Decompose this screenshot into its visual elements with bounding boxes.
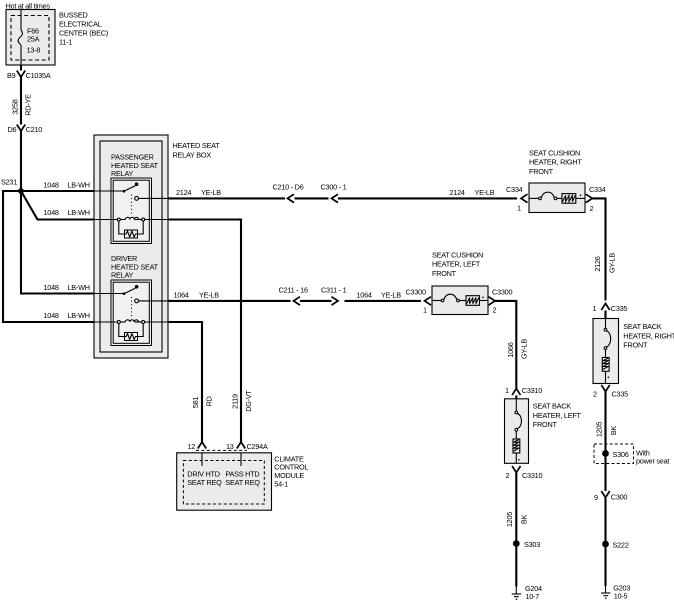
svg-text:RD-YE: RD-YE (24, 94, 33, 116)
wire 2126 GY-LB (592, 198, 616, 300)
svg-text:C3300: C3300 (406, 288, 426, 297)
svg-text:C294A: C294A (247, 442, 268, 451)
splice S231 (1, 178, 24, 194)
svg-text:HEATER, RIGHT: HEATER, RIGHT (623, 331, 674, 340)
svg-text:1205: 1205 (595, 422, 604, 437)
svg-text:S303: S303 (524, 540, 540, 549)
inline connector C300-1 (321, 183, 347, 203)
ground G204 (512, 584, 542, 600)
svg-text:C300 - 1: C300 - 1 (321, 183, 347, 192)
svg-text:C3300: C3300 (492, 288, 512, 297)
svg-text:GY-LB: GY-LB (520, 339, 529, 359)
svg-text:1: 1 (593, 304, 597, 313)
svg-text:581: 581 (191, 397, 200, 409)
svg-text:C210: C210 (26, 125, 43, 134)
connector C335 pin 1 (593, 304, 628, 319)
connector C334 pin 2 (586, 185, 606, 213)
passenger heated seat relay (94, 152, 168, 243)
svg-text:S306: S306 (613, 450, 629, 459)
wire 1205 BK right column (595, 392, 619, 587)
passenger relay coil (94, 219, 117, 221)
wire 1205 BK left column (505, 473, 529, 587)
svg-text:D6: D6 (8, 125, 17, 134)
inline connector C210-D6 (273, 183, 304, 203)
svg-text:2124: 2124 (176, 188, 191, 197)
svg-text:C311 - 1: C311 - 1 (321, 285, 347, 294)
svg-text:S231: S231 (1, 178, 17, 187)
svg-text:C334: C334 (506, 185, 523, 194)
svg-text:C210 - D6: C210 - D6 (273, 183, 304, 192)
wire from BEC (20, 65, 22, 71)
svg-text:1: 1 (423, 306, 427, 315)
svg-text:HEATED SEAT: HEATED SEAT (173, 141, 221, 150)
svg-text:LB-WH: LB-WH (68, 283, 90, 292)
connector C3300 pin 1 (406, 288, 432, 315)
svg-text:10-5: 10-5 (614, 592, 628, 600)
svg-text:SEAT CUSHION: SEAT CUSHION (529, 148, 580, 157)
driver relay coil (94, 321, 117, 323)
BEC label (59, 11, 108, 47)
svg-text:1048: 1048 (44, 208, 59, 217)
seat cushion heater left front (432, 250, 488, 314)
svg-text:C3310: C3310 (522, 386, 542, 395)
svg-text:LB-WH: LB-WH (68, 311, 90, 320)
wire 1048 LB-WH to driver relay switch (21, 191, 94, 294)
wire 2119 DG-VT passenger coil to module (168, 220, 253, 443)
wire 2124 YE-LB passenger feed (168, 188, 517, 199)
svg-text:LB-WH: LB-WH (68, 208, 90, 217)
wire 3258 RD-YE (11, 77, 33, 125)
svg-text:9: 9 (594, 493, 598, 502)
svg-text:GY-LB: GY-LB (608, 253, 617, 273)
passenger relay resistor (119, 221, 125, 234)
splice S222 (602, 540, 629, 549)
svg-text:ELECTRICAL: ELECTRICAL (59, 20, 102, 29)
svg-text:3258: 3258 (11, 99, 20, 114)
svg-text:1205: 1205 (505, 512, 514, 527)
connector C3310 pin 2 (506, 466, 543, 480)
inline connector C211-16 (279, 285, 308, 305)
svg-text:1: 1 (517, 204, 521, 213)
svg-text:C334: C334 (589, 185, 606, 194)
climate control module label (274, 454, 308, 488)
svg-text:C1035A: C1035A (26, 71, 51, 80)
svg-text:11-1: 11-1 (59, 38, 72, 47)
connector C3300 pin 2 (489, 288, 513, 315)
svg-text:C335: C335 (611, 304, 628, 313)
fuse F66 25A (18, 10, 40, 66)
driver relay switch (94, 293, 124, 295)
climate control module (177, 453, 272, 510)
driver heated seat relay (94, 254, 168, 346)
svg-text:2124: 2124 (450, 188, 465, 197)
svg-text:SEAT REQ: SEAT REQ (225, 478, 260, 487)
connector C335 pin 2 (593, 385, 628, 398)
connector C3310 pin 1 (505, 386, 542, 399)
svg-text:2: 2 (593, 389, 597, 398)
seat cushion heater right front (529, 148, 585, 212)
wire 1066 GY-LB (495, 301, 529, 389)
wire 1048 LB-WH to driver relay coil (3, 191, 94, 322)
svg-text:SEAT BACK: SEAT BACK (623, 322, 661, 331)
svg-text:HEATER, LEFT: HEATER, LEFT (432, 260, 481, 269)
svg-text:1064: 1064 (357, 290, 372, 299)
svg-text:2: 2 (506, 471, 510, 480)
svg-text:BK: BK (609, 426, 618, 436)
heated seat relay box (94, 135, 220, 358)
seat back heater right front (593, 319, 674, 384)
svg-text:2: 2 (590, 204, 594, 213)
svg-text:power seat: power seat (636, 457, 669, 466)
driver relay resistor (119, 324, 125, 337)
inline connector C311-1 (321, 285, 347, 305)
svg-text:LB-WH: LB-WH (68, 180, 90, 189)
splice S303 (513, 540, 540, 549)
splice S306 with power seat (594, 444, 669, 466)
svg-text:RELAY: RELAY (111, 271, 134, 280)
svg-text:YE-LB: YE-LB (381, 290, 401, 299)
svg-text:B9: B9 (7, 71, 16, 80)
svg-text:CENTER (BEC): CENTER (BEC) (59, 29, 108, 38)
svg-text:C300: C300 (611, 492, 628, 501)
connector C210 (D6) (8, 125, 43, 135)
svg-text:25A: 25A (27, 35, 40, 44)
svg-text:1048: 1048 (44, 180, 59, 189)
svg-text:FRONT: FRONT (623, 341, 648, 350)
wire 1048 LB-WH to passenger relay coil (21, 191, 94, 220)
wire to splice S231 (20, 131, 22, 191)
wire 581 RD driver coil to module (168, 322, 214, 442)
wire 1048 LB-WH to passenger relay switch (21, 180, 94, 191)
svg-text:FRONT: FRONT (529, 167, 554, 176)
connector C294A pin 12 (188, 442, 207, 451)
svg-text:BUSSED: BUSSED (59, 11, 88, 20)
svg-text:HEATER, RIGHT: HEATER, RIGHT (529, 158, 582, 167)
svg-text:RELAY BOX: RELAY BOX (173, 150, 212, 159)
svg-text:DG-VT: DG-VT (244, 389, 253, 411)
svg-text:SEAT BACK: SEAT BACK (533, 402, 571, 411)
svg-text:13-8: 13-8 (27, 46, 41, 55)
svg-text:FRONT: FRONT (533, 420, 558, 429)
svg-text:1064: 1064 (174, 290, 189, 299)
svg-text:1066: 1066 (506, 342, 515, 357)
connector C300 pin 9 (594, 491, 627, 502)
svg-text:YE-LB: YE-LB (199, 290, 219, 299)
svg-text:1: 1 (505, 386, 509, 395)
svg-text:2119: 2119 (231, 394, 240, 409)
bussed electrical center (BEC) box (6, 10, 55, 66)
seat back heater left front (505, 399, 582, 464)
svg-text:SEAT CUSHION: SEAT CUSHION (432, 250, 483, 259)
svg-text:10-7: 10-7 (525, 592, 539, 600)
svg-text:RD: RD (205, 396, 214, 406)
svg-text:C211 - 16: C211 - 16 (279, 285, 308, 294)
svg-text:13: 13 (226, 442, 234, 451)
connector C334 pin 1 (506, 185, 528, 213)
svg-text:C3310: C3310 (522, 471, 542, 480)
svg-text:YE-LB: YE-LB (201, 188, 221, 197)
svg-text:S222: S222 (613, 540, 629, 549)
svg-text:2126: 2126 (593, 256, 602, 271)
svg-text:HEATER, LEFT: HEATER, LEFT (533, 411, 582, 420)
svg-text:BK: BK (520, 515, 529, 525)
wire 1064 YE-LB driver feed (168, 290, 421, 301)
svg-text:RELAY: RELAY (111, 169, 134, 178)
svg-text:SEAT REQ: SEAT REQ (187, 478, 222, 487)
svg-text:YE-LB: YE-LB (475, 188, 495, 197)
svg-text:FRONT: FRONT (432, 269, 457, 278)
connector C1035A (B9) (7, 71, 51, 81)
svg-text:12: 12 (188, 442, 196, 451)
passenger relay switch (94, 190, 124, 192)
svg-text:54-1: 54-1 (274, 479, 288, 488)
ground G203 (601, 584, 630, 600)
svg-text:1048: 1048 (44, 283, 59, 292)
svg-text:2: 2 (493, 306, 497, 315)
svg-text:C335: C335 (612, 389, 629, 398)
svg-text:1048: 1048 (44, 311, 59, 320)
connector C294A pin 13 (196, 442, 268, 451)
